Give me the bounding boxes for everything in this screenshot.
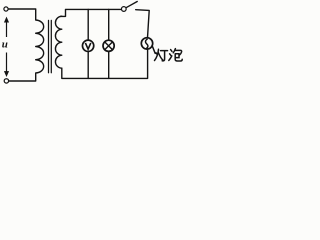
- svg-text:u: u: [2, 39, 8, 51]
